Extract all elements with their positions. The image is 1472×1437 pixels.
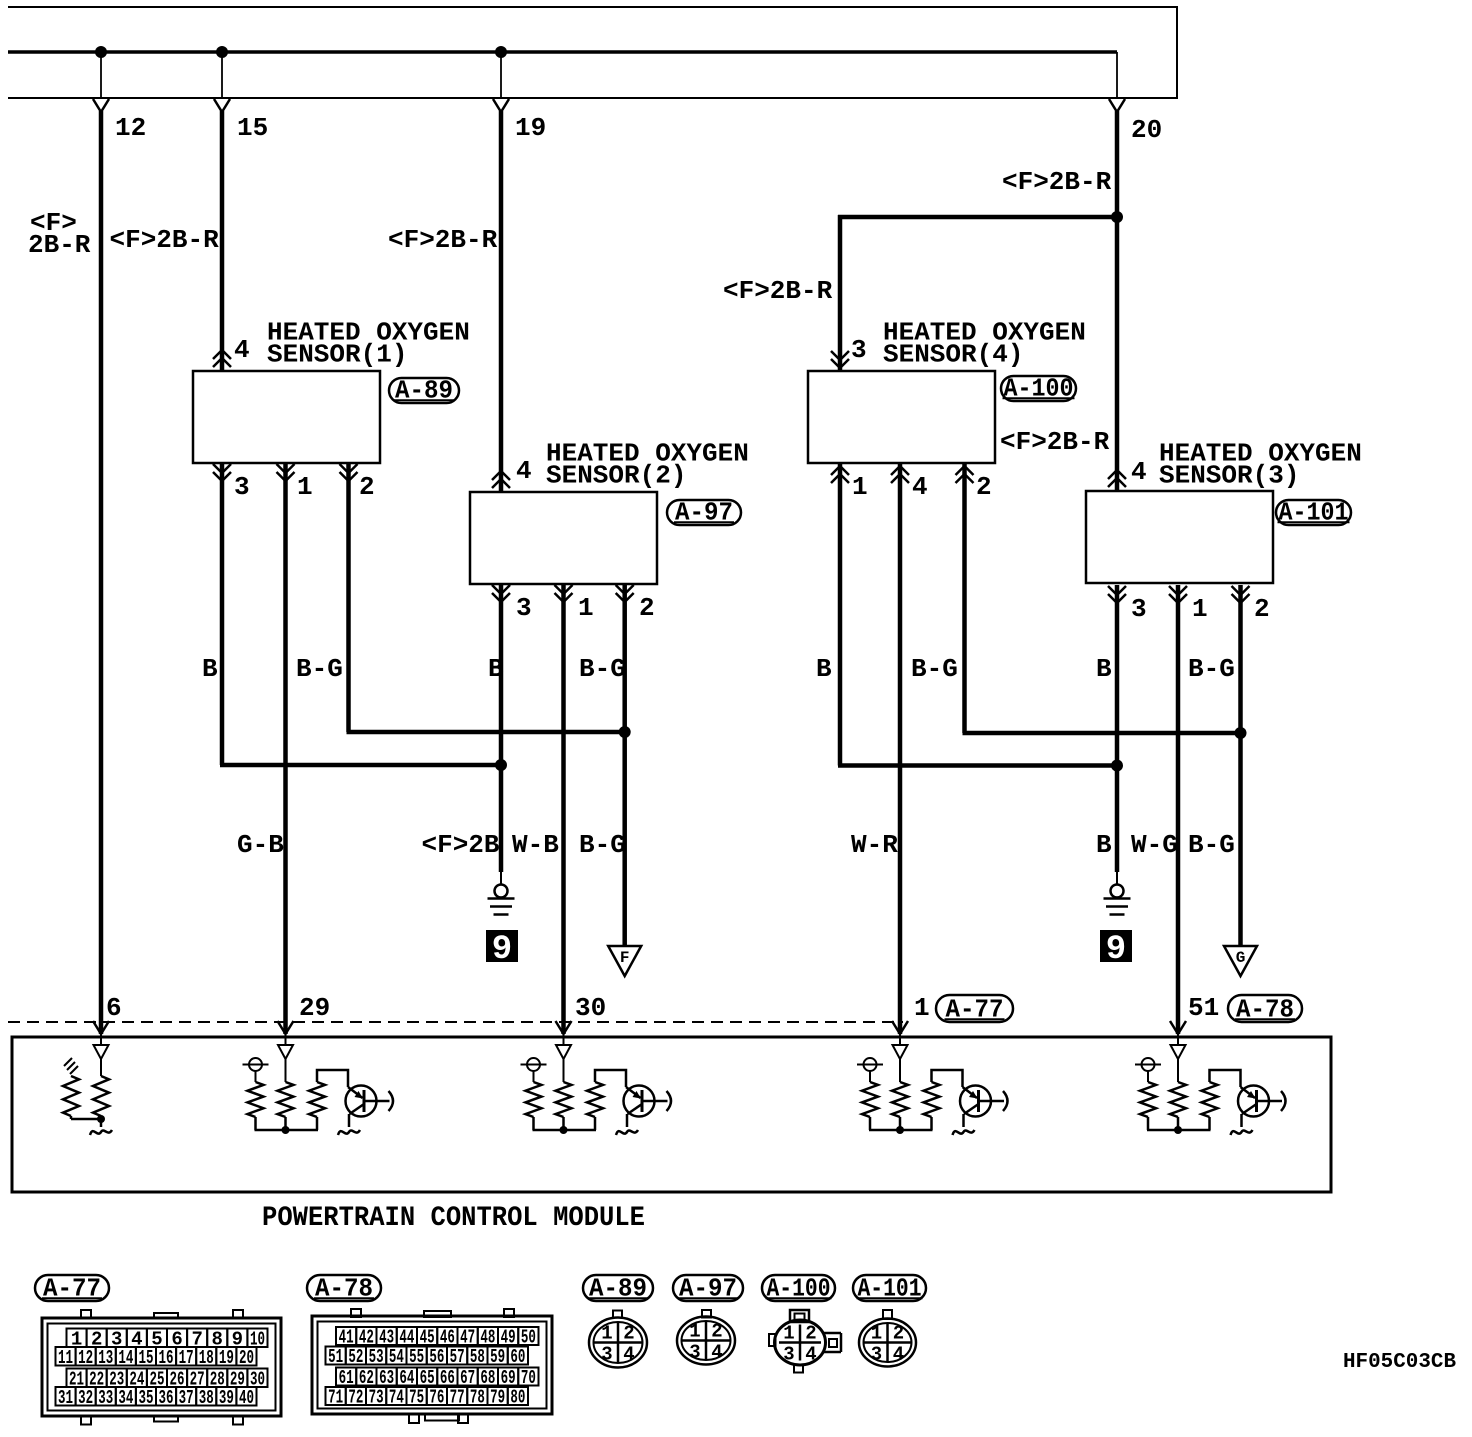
- svg-text:34: 34: [118, 1387, 133, 1409]
- svg-text:B: B: [816, 654, 832, 684]
- svg-text:36: 36: [159, 1387, 174, 1409]
- svg-text:2: 2: [805, 1323, 816, 1345]
- svg-text:33: 33: [98, 1387, 113, 1409]
- svg-text:2: 2: [1254, 594, 1270, 624]
- svg-text:6: 6: [106, 993, 122, 1023]
- svg-text:1: 1: [601, 1323, 612, 1345]
- svg-text:2: 2: [623, 1323, 634, 1345]
- svg-text:4: 4: [711, 1342, 722, 1364]
- svg-text:3: 3: [783, 1344, 794, 1366]
- svg-text:31: 31: [58, 1387, 73, 1409]
- svg-text:4: 4: [1131, 457, 1147, 487]
- svg-text:3: 3: [851, 335, 867, 365]
- svg-text:G-B: G-B: [237, 830, 284, 860]
- svg-text:3: 3: [234, 472, 250, 502]
- svg-text:57: 57: [450, 1346, 465, 1368]
- svg-text:2: 2: [893, 1323, 904, 1345]
- svg-text:B-G: B-G: [296, 654, 343, 684]
- svg-text:1: 1: [871, 1323, 882, 1345]
- svg-text:20: 20: [1131, 115, 1162, 145]
- svg-text:HF05C03CB: HF05C03CB: [1343, 1351, 1456, 1374]
- svg-text:1: 1: [914, 993, 930, 1023]
- svg-text:79: 79: [490, 1387, 505, 1409]
- svg-text:29: 29: [299, 993, 330, 1023]
- svg-text:19: 19: [219, 1347, 234, 1369]
- svg-text:1: 1: [578, 593, 594, 623]
- svg-text:51: 51: [1188, 993, 1219, 1023]
- svg-text:16: 16: [159, 1347, 174, 1369]
- svg-text:B-G: B-G: [1188, 654, 1235, 684]
- svg-text:SENSOR(1): SENSOR(1): [267, 340, 407, 370]
- svg-text:40: 40: [239, 1387, 254, 1409]
- svg-text:4: 4: [623, 1344, 634, 1366]
- svg-text:13: 13: [98, 1347, 113, 1369]
- svg-text:B: B: [1096, 830, 1112, 860]
- svg-text:W-B: W-B: [512, 830, 559, 860]
- svg-text:4: 4: [912, 472, 928, 502]
- svg-text:SENSOR(4): SENSOR(4): [883, 340, 1023, 370]
- svg-text:53: 53: [369, 1346, 384, 1368]
- svg-text:<F>2B-R: <F>2B-R: [110, 225, 220, 255]
- svg-text:G: G: [1236, 949, 1246, 967]
- svg-text:B-G: B-G: [1188, 830, 1235, 860]
- svg-text:20: 20: [239, 1347, 254, 1369]
- svg-text:51: 51: [328, 1346, 343, 1368]
- svg-text:30: 30: [575, 993, 606, 1023]
- svg-text:76: 76: [429, 1387, 444, 1409]
- svg-text:18: 18: [199, 1347, 214, 1369]
- svg-text:4: 4: [805, 1344, 816, 1366]
- svg-text:59: 59: [490, 1346, 505, 1368]
- svg-text:W-R: W-R: [851, 830, 898, 860]
- svg-text:3: 3: [689, 1342, 700, 1364]
- svg-text:58: 58: [470, 1346, 485, 1368]
- svg-text:SENSOR(3): SENSOR(3): [1159, 461, 1299, 491]
- svg-text:4: 4: [516, 456, 532, 486]
- svg-text:19: 19: [515, 113, 546, 143]
- svg-text:F: F: [620, 949, 630, 967]
- svg-text:32: 32: [78, 1387, 93, 1409]
- svg-text:56: 56: [429, 1346, 444, 1368]
- svg-text:60: 60: [510, 1346, 525, 1368]
- svg-text:B-G: B-G: [579, 654, 626, 684]
- svg-text:SENSOR(2): SENSOR(2): [546, 461, 686, 491]
- svg-text:3: 3: [871, 1344, 882, 1366]
- svg-text:74: 74: [389, 1387, 404, 1409]
- svg-text:1: 1: [689, 1321, 700, 1343]
- svg-text:1: 1: [783, 1323, 794, 1345]
- svg-text:4: 4: [234, 335, 250, 365]
- svg-text:54: 54: [389, 1346, 404, 1368]
- svg-text:78: 78: [470, 1387, 485, 1409]
- svg-text:75: 75: [409, 1387, 424, 1409]
- svg-text:2: 2: [359, 472, 375, 502]
- svg-text:12: 12: [115, 113, 146, 143]
- svg-text:9: 9: [1106, 931, 1126, 969]
- svg-text:POWERTRAIN CONTROL MODULE: POWERTRAIN CONTROL MODULE: [262, 1203, 645, 1234]
- svg-text:15: 15: [138, 1347, 153, 1369]
- svg-text:17: 17: [179, 1347, 194, 1369]
- svg-text:2B-R: 2B-R: [28, 230, 91, 260]
- svg-text:1: 1: [297, 472, 313, 502]
- svg-text:37: 37: [179, 1387, 194, 1409]
- svg-text:3: 3: [601, 1344, 612, 1366]
- svg-text:80: 80: [510, 1387, 525, 1409]
- svg-text:77: 77: [450, 1387, 465, 1409]
- svg-text:12: 12: [78, 1347, 93, 1369]
- svg-text:<F>2B: <F>2B: [422, 830, 500, 860]
- svg-text:3: 3: [1131, 594, 1147, 624]
- svg-text:72: 72: [348, 1387, 363, 1409]
- svg-text:2: 2: [639, 593, 655, 623]
- svg-text:39: 39: [219, 1387, 234, 1409]
- svg-text:B-G: B-G: [911, 654, 958, 684]
- svg-text:11: 11: [58, 1347, 73, 1369]
- svg-text:71: 71: [328, 1387, 343, 1409]
- svg-text:B: B: [488, 654, 504, 684]
- svg-text:B: B: [202, 654, 218, 684]
- svg-text:1: 1: [852, 472, 868, 502]
- svg-text:B: B: [1096, 654, 1112, 684]
- svg-text:14: 14: [118, 1347, 133, 1369]
- svg-text:52: 52: [348, 1346, 363, 1368]
- svg-text:3: 3: [516, 593, 532, 623]
- svg-text:15: 15: [237, 113, 268, 143]
- svg-text:W-G: W-G: [1131, 830, 1178, 860]
- svg-text:35: 35: [138, 1387, 153, 1409]
- svg-text:38: 38: [199, 1387, 214, 1409]
- svg-text:<F>2B-R: <F>2B-R: [1002, 167, 1112, 197]
- svg-text:2: 2: [976, 472, 992, 502]
- svg-text:<F>2B-R: <F>2B-R: [1000, 427, 1110, 457]
- svg-text:4: 4: [893, 1344, 904, 1366]
- svg-text:B-G: B-G: [579, 830, 626, 860]
- svg-text:<F>2B-R: <F>2B-R: [388, 225, 498, 255]
- svg-text:<F>2B-R: <F>2B-R: [723, 276, 833, 306]
- svg-text:1: 1: [1192, 594, 1208, 624]
- svg-text:9: 9: [492, 931, 512, 969]
- svg-text:55: 55: [409, 1346, 424, 1368]
- svg-text:73: 73: [369, 1387, 384, 1409]
- svg-text:2: 2: [711, 1321, 722, 1343]
